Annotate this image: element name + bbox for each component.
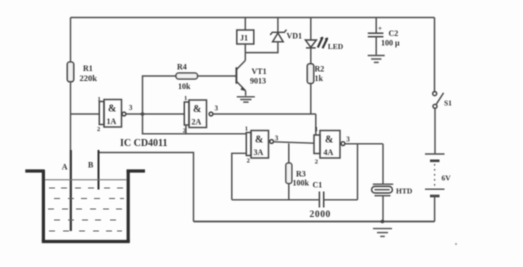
wire: top supply rail	[71, 17, 435, 19]
svg-text:3: 3	[275, 135, 279, 143]
svg-text:3: 3	[129, 104, 133, 112]
svg-text:R3: R3	[296, 170, 306, 179]
svg-text:1: 1	[184, 95, 187, 102]
scan speck	[455, 243, 457, 245]
svg-text:4A: 4A	[324, 148, 334, 157]
svg-text:220k: 220k	[80, 73, 98, 83]
wire: R4 to VT1 base	[198, 75, 236, 77]
node: tap to gate 1A inputs	[71, 113, 100, 115]
water dashes	[48, 188, 124, 231]
svg-text:3: 3	[215, 105, 219, 113]
wire: stub down to 4A pin1	[315, 114, 317, 135]
svg-text:2: 2	[315, 159, 318, 166]
svg-text:C2: C2	[389, 29, 399, 38]
wire: 3A output to 4A input	[274, 142, 315, 143]
resistor R1	[67, 62, 73, 82]
resistor R2	[307, 64, 313, 84]
switch S1	[434, 18, 436, 92]
svg-text:3A: 3A	[254, 148, 264, 157]
svg-text:2000: 2000	[310, 210, 331, 220]
svg-text:R2: R2	[315, 65, 325, 74]
wire: electrode B up-and-over to ground rail	[99, 153, 194, 222]
LED light arrows	[318, 37, 323, 47]
svg-text:3: 3	[346, 136, 350, 144]
svg-text:1: 1	[245, 126, 248, 133]
svg-text:A: A	[62, 163, 68, 172]
ground (main)	[373, 228, 392, 230]
svg-text:C1: C1	[313, 181, 323, 190]
buzzer HTD	[382, 144, 384, 184]
water tank	[25, 170, 145, 242]
wire: left vertical from rail to R1	[70, 18, 72, 63]
svg-text:1: 1	[98, 96, 101, 103]
svg-text:100 μ: 100 μ	[381, 39, 400, 48]
battery 6V	[425, 153, 445, 155]
ground (C2)	[368, 55, 385, 57]
svg-text:B: B	[88, 161, 94, 170]
NAND gate 2A	[184, 100, 213, 134]
svg-text:1A: 1A	[107, 117, 117, 126]
resistor R3	[288, 143, 290, 163]
svg-text:2A: 2A	[192, 118, 202, 127]
transistor VT1	[237, 61, 246, 70]
node dot on ground rail	[381, 220, 385, 224]
svg-text:6V: 6V	[442, 174, 452, 183]
wire: bottom ground rail	[194, 221, 435, 223]
svg-text:2: 2	[247, 158, 250, 165]
svg-text:100k: 100k	[293, 179, 310, 188]
svg-text:&: &	[193, 104, 201, 115]
node junction dot	[141, 112, 145, 116]
wire: 3A pin2 from C1 node	[232, 153, 247, 200]
wire: 2A output to R2 node	[213, 113, 316, 115]
NAND gate 3A	[246, 131, 273, 159]
electrode A	[70, 150, 72, 231]
capacitor C1	[232, 199, 319, 201]
svg-text:S1: S1	[444, 99, 452, 108]
wire: 4A output to HTD	[345, 143, 383, 145]
svg-text:R1: R1	[83, 64, 93, 73]
svg-text:1: 1	[315, 126, 318, 133]
svg-text:1k: 1k	[315, 74, 324, 83]
NAND gate 1A	[99, 100, 126, 128]
relay coil J1	[244, 18, 246, 31]
electrode B	[98, 150, 100, 190]
LED	[310, 18, 312, 41]
wire: R1 bottom down to tank electrode A	[70, 82, 72, 151]
svg-text:HTD: HTD	[396, 187, 413, 196]
svg-text:VT1: VT1	[252, 67, 267, 76]
wire: 1A output to junction	[126, 113, 143, 115]
svg-text:9013: 9013	[250, 77, 266, 86]
svg-text:J1: J1	[240, 34, 248, 43]
svg-text:&: &	[255, 135, 263, 146]
svg-text:R4: R4	[177, 63, 187, 72]
svg-text:2: 2	[97, 126, 100, 133]
svg-text:VD1: VD1	[287, 32, 303, 41]
water surface	[45, 179, 127, 181]
svg-text:10k: 10k	[178, 82, 191, 91]
diode VD1 (zener)	[277, 18, 279, 33]
NAND gate 4A	[314, 131, 345, 159]
svg-text:LED: LED	[328, 42, 344, 51]
wire: junction up to R4	[143, 76, 177, 114]
capacitor C2	[375, 18, 377, 34]
wire: feedback tap down to C1 wire	[357, 144, 359, 200]
svg-text:&: &	[108, 104, 116, 115]
svg-text:2: 2	[183, 128, 186, 135]
resistor R4	[176, 73, 198, 79]
svg-text:IC CD4011: IC CD4011	[120, 138, 168, 149]
svg-text:&: &	[325, 135, 333, 146]
wire: junction to 2A input	[143, 113, 185, 115]
wire: junction down and right to 3A pin1	[143, 114, 247, 134]
svg-text:+: +	[378, 25, 382, 33]
ground (emitter)	[237, 96, 255, 98]
